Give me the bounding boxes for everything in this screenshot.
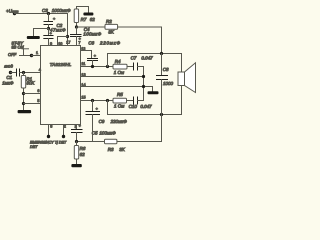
node C3 top [47, 12, 50, 15]
wire zobel drop [143, 67, 145, 101]
svg-text:1 Ом: 1 Ом [114, 70, 124, 75]
svg-text:62: 62 [80, 152, 86, 157]
svg-text:C5: C5 [92, 131, 98, 136]
svg-text:0.047: 0.047 [140, 104, 152, 109]
svg-text:7: 7 [78, 41, 80, 45]
node pin13/drop [142, 75, 145, 78]
svg-text:2: 2 [64, 125, 66, 129]
wire pin 2 stub [63, 125, 65, 136]
node Vcc jog [66, 35, 69, 38]
svg-text:17: 17 [66, 40, 70, 44]
wire pin 14 [81, 87, 153, 92]
wire bottom rail [77, 141, 162, 143]
wire pin 1 [32, 55, 41, 57]
svg-text:6: 6 [37, 89, 39, 93]
svg-text:C10: C10 [129, 104, 138, 109]
node pin6 [22, 92, 25, 95]
svg-text:62: 62 [90, 17, 96, 22]
capacitor C3 [42, 8, 71, 28]
node feed/C8 [160, 52, 163, 55]
capacitor C2 [44, 23, 66, 46]
node C9 top [91, 99, 94, 102]
resistor R5 [113, 92, 127, 109]
node pin14/drop [142, 85, 145, 88]
ground bar R6 [71, 164, 81, 167]
ground bar input [18, 110, 32, 113]
capacitor C5 [72, 124, 117, 141]
wire pin 13 [81, 76, 144, 78]
svg-text:9: 9 [50, 42, 52, 46]
node pin5 [22, 102, 25, 105]
svg-text:R7: R7 [81, 17, 87, 22]
resistor R6 [74, 142, 86, 165]
svg-text:R5: R5 [117, 92, 123, 97]
node return/C8 [160, 113, 163, 116]
wire pin 12 to C6 [81, 51, 92, 59]
wire pin 8 stub [48, 125, 50, 136]
svg-text:R4: R4 [115, 59, 121, 64]
node riser B top [106, 99, 109, 102]
node +Upit terminal [6, 8, 19, 15]
node R7/C4/R2 [75, 25, 78, 28]
wire pin 5 [24, 103, 41, 105]
capacitor C8 [157, 54, 174, 142]
ground bar top-left [27, 36, 40, 39]
wire to ground left [34, 29, 49, 37]
svg-text:5: 5 [37, 99, 39, 103]
resistor R4 [113, 59, 127, 75]
speaker [178, 63, 196, 93]
op-amp IC U1 TA8225HL box [41, 46, 81, 125]
wire riser A [107, 54, 109, 67]
svg-text:C8: C8 [163, 67, 169, 72]
wire pin 11 [81, 66, 114, 68]
node C6 bottom [91, 65, 94, 68]
node pin8 terminal [47, 135, 50, 138]
svg-text:0.047: 0.047 [141, 56, 153, 61]
svg-text:C1: C1 [6, 75, 12, 80]
svg-text:C9: C9 [99, 119, 105, 124]
resistor R2 [105, 19, 118, 34]
wire speaker feed [108, 54, 182, 73]
svg-text:10: 10 [58, 42, 62, 46]
node input terminal [4, 63, 13, 74]
svg-text:C3: C3 [42, 8, 48, 13]
svg-text:220мкФ: 220мкФ [99, 41, 121, 46]
svg-text:1000: 1000 [163, 81, 174, 86]
node speaker riser top [106, 65, 109, 68]
capacitor C10 [127, 97, 153, 109]
wire node to R2 [77, 26, 106, 28]
node pin2 terminal [62, 135, 65, 138]
wire pin 15 [81, 100, 114, 102]
capacitor C6 [88, 41, 121, 67]
wire speaker return [108, 114, 182, 116]
svg-text:100мкФ: 100мкФ [99, 131, 116, 136]
node EMERGENCY DET label [30, 141, 67, 149]
wire pin 6 [24, 93, 41, 95]
capacitor C4 [71, 27, 102, 46]
svg-text:100мкФ: 100мкФ [83, 31, 101, 36]
resistor R7 [74, 7, 95, 28]
svg-text:+Uпит: +Uпит [6, 8, 19, 13]
svg-text:R3: R3 [108, 147, 114, 152]
svg-text:1: 1 [36, 51, 38, 55]
wire supply rail [15, 13, 68, 15]
svg-text:1000мкФ: 1000мкФ [52, 8, 71, 13]
svg-text:220мкФ: 220мкФ [110, 119, 128, 124]
capacitor C1 [2, 69, 40, 86]
ground bar pin14 [148, 91, 159, 94]
wire R2 to right corner [118, 27, 162, 54]
svg-text:8: 8 [50, 125, 52, 129]
wire Vcc drop to pin 17 [67, 14, 69, 46]
svg-text:30K: 30K [26, 81, 35, 86]
svg-text:C6: C6 [88, 41, 94, 46]
node C3/C2/ground junction [47, 27, 50, 30]
svg-text:3B ON: 3B ON [11, 44, 23, 49]
wire riser B [107, 101, 109, 115]
svg-text:1 Ом: 1 Ом [114, 104, 124, 109]
wire speaker bottom drop [181, 86, 183, 115]
svg-text:R6: R6 [80, 146, 86, 151]
svg-text:47мкФ: 47мкФ [50, 28, 66, 33]
resistor R1 [21, 73, 35, 111]
svg-text:вход: вход [4, 63, 13, 68]
svg-text:C7: C7 [131, 56, 137, 61]
svg-text:DET: DET [30, 145, 38, 149]
svg-text:11: 11 [81, 62, 85, 66]
svg-text:R2: R2 [106, 19, 112, 24]
wire pin10 jog [58, 37, 68, 46]
svg-text:1мкФ: 1мкФ [2, 81, 14, 86]
switch ST-BY [8, 41, 33, 58]
svg-text:OFF: OFF [8, 52, 17, 57]
svg-text:TA8225HL: TA8225HL [50, 62, 72, 67]
svg-text:EMERGENCY Tj DET: EMERGENCY Tj DET [30, 141, 67, 145]
capacitor C7 [127, 56, 153, 70]
svg-text:4: 4 [39, 68, 41, 72]
svg-text:15: 15 [81, 95, 85, 99]
node R1 top [22, 71, 25, 74]
capacitor C9 [86, 101, 127, 142]
ground bar at R7 [83, 13, 93, 16]
resistor R3 [105, 139, 126, 152]
node rail/C5/R6 [75, 140, 78, 143]
